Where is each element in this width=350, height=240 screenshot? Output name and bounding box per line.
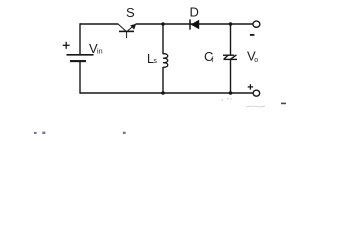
plus polarity mark at lower terminal <box>248 84 253 89</box>
capacitor Cf symbol <box>223 55 237 60</box>
node junction bottom Ls <box>161 91 165 95</box>
terminal lower output <box>253 90 260 96</box>
svg-text:S: S <box>126 5 135 20</box>
wire Ls branch upper (top rail junction down to coil) <box>162 24 164 54</box>
terminal upper output <box>253 21 260 27</box>
stray faint squiggle <box>246 106 265 107</box>
stray mark dash right <box>281 102 286 104</box>
wire left vertical upper (top rail corner down to battery) <box>79 23 81 54</box>
diode D <box>190 19 199 29</box>
svg-text:f: f <box>211 55 214 64</box>
wire Ls branch lower (coil down to bottom rail junction) <box>162 67 164 93</box>
wire top rail right segment (switch S to + terminal) <box>136 23 253 25</box>
svg-text:in: in <box>97 47 103 56</box>
minus polarity mark at upper terminal <box>250 34 255 36</box>
label Ls <box>147 52 157 66</box>
label Vin <box>89 41 103 56</box>
node junction bottom Cf <box>229 91 233 95</box>
wire left vertical lower (battery to bottom rail) <box>79 61 81 93</box>
svg-text:o: o <box>254 57 258 64</box>
wire Cf branch lower (capacitor down to bottom rail junction) <box>230 59 232 93</box>
svg-text:D: D <box>190 5 199 20</box>
stray faint speckles <box>222 98 232 100</box>
wire top rail left segment (corner to switch S) <box>80 23 119 25</box>
battery + polarity mark <box>63 42 70 49</box>
battery Vin plates <box>67 55 94 61</box>
node junction top Cf <box>229 22 233 26</box>
wire Cf branch upper (top rail junction down to capacitor) <box>230 24 232 55</box>
wire bottom rail <box>80 92 253 94</box>
stray cropped letter tops bottom edge <box>34 132 126 134</box>
transistor arrowhead <box>130 24 136 30</box>
label Cf <box>204 49 214 64</box>
node junction top Ls <box>161 22 165 26</box>
label Vo <box>247 49 258 64</box>
inductor Ls coil <box>163 54 168 68</box>
svg-text:s: s <box>153 58 157 65</box>
transistor Q (switch S) <box>118 24 134 38</box>
